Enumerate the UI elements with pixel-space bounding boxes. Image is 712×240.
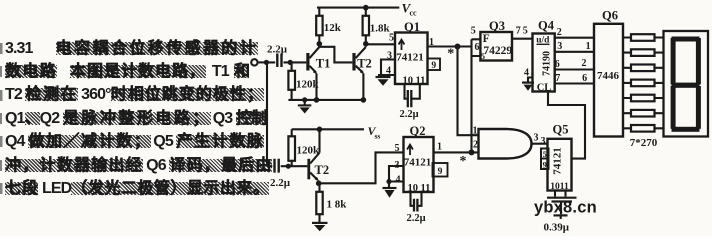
resistor 1.8k (lower) — [316, 183, 322, 222]
svg-text:74121: 74121 — [552, 147, 564, 175]
wire T2 collector to Q1 pin 5 — [366, 44, 395, 47]
ground (lower 1.8k) — [312, 223, 328, 231]
label CL (Q4) — [537, 83, 552, 94]
label u/d (Q4) — [536, 35, 550, 45]
svg-text:2.2μ: 2.2μ — [399, 109, 418, 120]
svg-text:Q4: Q4 — [538, 19, 555, 33]
pin label 3 (AND out) — [534, 133, 539, 144]
svg-text:1.8k: 1.8k — [370, 23, 391, 35]
svg-text:ybx8.cn: ybx8.cn — [534, 199, 597, 217]
svg-text:7*270: 7*270 — [630, 137, 658, 149]
label 7446 — [597, 70, 620, 82]
seven-segment digit 8 — [671, 37, 701, 132]
pin boxes (Q5 left) — [541, 149, 549, 170]
wire Q1 output — [428, 45, 458, 47]
wire Q4 CL to Q5 output — [548, 92, 585, 159]
capacitor 0.39u (Q5 timing) — [547, 191, 577, 220]
transistor T2 (top) — [352, 47, 365, 100]
svg-text:5: 5 — [395, 143, 400, 154]
label 74190 (Q4, rotated) — [542, 51, 553, 76]
svg-text:CL: CL — [537, 83, 552, 94]
wire Q3 lower pin down to AND input 2 — [470, 56, 472, 152]
node: AND input 2 junction — [469, 149, 475, 155]
svg-text:7: 7 — [555, 73, 560, 84]
resistor network 7x270 — [623, 34, 664, 131]
wire Q2 output to AND input 2 — [434, 151, 479, 153]
pin label 1 (Q6 in) — [586, 41, 591, 52]
wire Q3 output to Q4 — [512, 38, 533, 40]
svg-text:74121: 74121 — [404, 157, 432, 169]
svg-text:74229: 74229 — [483, 45, 512, 57]
capacitor 2.2u (Q2 timing) — [411, 192, 422, 212]
pin label 1 (Q2 output) — [437, 142, 442, 153]
pin labels 10 11 (Q2) — [408, 183, 431, 194]
wire AND output to Q5 — [532, 143, 548, 145]
Q2 trigger symbol — [407, 145, 413, 155]
svg-text:0.39μ: 0.39μ — [544, 222, 570, 234]
one-shot Q2 74121 box — [404, 137, 434, 192]
resistor 120k (top) — [288, 62, 295, 100]
svg-text:12k: 12k — [324, 22, 342, 34]
svg-text:3: 3 — [541, 136, 546, 147]
pin label 4 (Q4) — [524, 68, 529, 79]
svg-text:T1: T1 — [316, 57, 331, 71]
svg-text:T2: T2 — [357, 57, 372, 71]
pin label 3 (Q1) — [387, 50, 392, 61]
label Vss — [368, 124, 381, 141]
svg-text:2.2μ: 2.2μ — [267, 44, 288, 56]
label Q3 — [489, 19, 505, 33]
svg-text:9: 9 — [438, 167, 443, 177]
svg-text:1: 1 — [586, 41, 591, 52]
Q1 trigger symbol — [399, 40, 405, 50]
label 120k (lower) — [297, 145, 321, 157]
svg-text:74190: 74190 — [542, 51, 553, 76]
capacitor 2.2u (Q1 timing) — [405, 84, 420, 107]
svg-text:ss: ss — [375, 132, 381, 141]
caption text block (Chinese) — [5, 41, 258, 57]
pin label 3 (Q4 out) — [557, 41, 562, 52]
node: emitter rail junctions — [302, 97, 366, 103]
label Q2 — [410, 124, 426, 138]
svg-text:2.2μ: 2.2μ — [406, 213, 425, 224]
svg-text:6: 6 — [475, 42, 480, 53]
label 7*270 — [630, 137, 658, 149]
svg-text:F: F — [483, 33, 490, 45]
label 120k — [296, 79, 320, 91]
label T1 — [316, 57, 331, 71]
pin label 7 (Q3 out) — [516, 26, 521, 37]
label 2.2u (lower) — [270, 177, 291, 189]
label 2.2u (Q2) — [406, 213, 425, 224]
wire Q1 output to Q3 pins (jog) — [458, 39, 481, 56]
wire base node to T1 — [290, 61, 306, 63]
label 2.2u — [267, 44, 288, 56]
Vcc top rail — [317, 7, 399, 9]
svg-text:2: 2 — [582, 58, 587, 69]
svg-text:T2: T2 — [315, 163, 330, 177]
svg-text:2: 2 — [473, 140, 478, 151]
wire Q4 output bus to Q6 — [555, 38, 594, 84]
label T2 — [357, 57, 372, 71]
label Q4 — [538, 19, 555, 33]
svg-text:Q5: Q5 — [553, 123, 569, 137]
wire: feed to lower channel — [266, 62, 268, 166]
pin label 4 (Q1) — [386, 65, 391, 76]
svg-text:1 8k: 1 8k — [327, 199, 348, 211]
svg-text:3: 3 — [534, 133, 539, 144]
node: input junction — [264, 60, 269, 65]
svg-text:2.2μ: 2.2μ — [270, 177, 291, 189]
pin label 2 (Q4 out) — [557, 27, 562, 38]
emitter rail (top channel) — [288, 99, 365, 101]
asterisk mark near AND input 2 — [460, 154, 467, 169]
label 74121 (Q5, rotated) — [552, 147, 564, 175]
flip-flop Q3 74229 box — [480, 32, 512, 61]
svg-text:7: 7 — [516, 26, 521, 37]
svg-text:3: 3 — [557, 41, 562, 52]
label S pin (Q3) — [481, 51, 485, 61]
svg-text:5: 5 — [389, 33, 394, 44]
label 0.39u — [544, 222, 570, 234]
svg-text:74121: 74121 — [396, 52, 424, 64]
svg-text:5: 5 — [523, 26, 528, 37]
transistor T1 — [306, 47, 319, 100]
watermark ybx8.cn — [534, 199, 597, 217]
asterisk mark near Q1 output — [447, 47, 454, 62]
node: lower T2 emitter junction — [316, 181, 322, 187]
seven-segment display box — [664, 31, 709, 137]
pin label 2 (Q6 in) — [582, 58, 587, 69]
pin label 6 (Q6 in) — [582, 73, 587, 84]
pin label 5 (Q2) — [395, 143, 400, 154]
pin label 3 (Q5 in) — [541, 136, 546, 147]
pin label 6 (Q3) — [475, 42, 480, 53]
label Q6 — [602, 9, 618, 23]
resistor 1.8k — [363, 8, 369, 44]
pin label 4 (Q2) — [396, 175, 401, 186]
pin label 3 (Q2) — [395, 160, 400, 171]
label T2 (lower) — [315, 163, 330, 177]
page-edge artifacts — [0, 43, 3, 194]
node: T1 collector — [317, 41, 323, 47]
label 74229 (Q3) — [483, 45, 512, 57]
wire base node to lower T2 — [288, 165, 307, 167]
svg-text:7446: 7446 — [597, 70, 620, 82]
svg-text:Q6: Q6 — [602, 9, 618, 23]
svg-text:*: * — [447, 47, 454, 62]
resistor 120k (lower) — [288, 129, 295, 166]
node: rail junction at 1.8k — [363, 5, 369, 11]
node: lower rail junction — [317, 127, 323, 133]
svg-text:*: * — [460, 154, 467, 169]
op-amp/one-shot IC Q1 74121 box — [395, 33, 428, 85]
wire T1 collector to 12k and coupling to T2 base — [319, 43, 352, 62]
label 1.8k — [370, 23, 391, 35]
wire Q4 pin 4 to ground — [528, 78, 533, 83]
svg-text:1011: 1011 — [550, 182, 569, 192]
decoder Q6 7446 box — [594, 24, 623, 137]
svg-text:Q2: Q2 — [410, 124, 426, 138]
svg-text:Q3: Q3 — [489, 19, 505, 33]
svg-text:Q1: Q1 — [404, 20, 420, 34]
svg-text:1: 1 — [473, 126, 478, 137]
ground (Q2 pins 3,4) — [383, 182, 397, 198]
pin labels 10 11 (Q5) — [550, 182, 569, 192]
node: T1 base node — [288, 60, 293, 65]
label 2.2u (Q1) — [399, 109, 418, 120]
pin label 7 (Q4 out) — [555, 73, 560, 84]
svg-text:1: 1 — [437, 142, 442, 153]
label F (Q3) — [483, 33, 490, 45]
pin label 6 (Q4 out) — [555, 59, 560, 70]
capacitor 2.2u (lower input) — [267, 159, 288, 173]
label 12k — [324, 22, 342, 34]
node: T2 collector — [363, 41, 369, 47]
label 74121 (Q1) — [396, 52, 424, 64]
svg-text:6: 6 — [555, 59, 560, 70]
pin label 2 (AND in) — [473, 140, 478, 151]
pin label 5 (Q1) — [389, 33, 394, 44]
ground (top channel) — [298, 100, 312, 114]
pin label 5 (Q4 in) — [523, 26, 528, 37]
svg-text:10: 10 — [408, 183, 419, 194]
Vcc label — [402, 1, 418, 18]
pin labels 10 11 (Q1) — [403, 76, 426, 87]
svg-text:6: 6 — [582, 73, 587, 84]
svg-text:2: 2 — [557, 27, 562, 38]
pin label 5 (Q3) — [471, 25, 476, 36]
transistor T2 (lower) — [307, 129, 319, 183]
label Q1 — [404, 20, 420, 34]
svg-text:5: 5 — [543, 149, 547, 159]
label 74121 (Q2) — [404, 157, 432, 169]
svg-text:cc: cc — [410, 9, 418, 18]
label 1.8k (lower) — [327, 199, 348, 211]
svg-text:9: 9 — [543, 160, 547, 170]
ground (Q4 pin 4) — [522, 83, 534, 91]
wire Q1 output down to AND input 1 — [458, 47, 479, 136]
wire Q2 pins 3,4 bracket — [389, 166, 404, 182]
pin label 1 (AND in) — [473, 126, 478, 137]
wire input to junction — [258, 61, 267, 63]
svg-text:4: 4 — [396, 175, 401, 186]
one-shot Q5 74121 box — [548, 139, 572, 191]
svg-text:5: 5 — [481, 51, 485, 61]
wire Q1 pins 3,4 bracket — [378, 60, 395, 76]
wire lower T2 emitter to Q2 pin 5 — [319, 152, 404, 183]
node: T2 lower base node — [286, 164, 291, 169]
Vss rail (lower) — [292, 128, 364, 130]
ground (Q1 pins 3,4) — [376, 77, 391, 86]
pin label 1 (Q1 output) — [429, 37, 434, 48]
resistor 12k — [316, 8, 322, 43]
node: Q2 pin4 junction — [386, 179, 391, 184]
pin 9 box (Q1) — [428, 59, 441, 71]
node: Q1 output junction — [455, 44, 461, 50]
svg-text:9: 9 — [431, 61, 436, 71]
input terminal — [251, 59, 257, 65]
pin 9 box (Q2) — [433, 163, 448, 177]
label Q5 — [553, 123, 569, 137]
AND gate — [479, 129, 532, 159]
svg-text:5: 5 — [471, 25, 476, 36]
counter Q4 74190 box — [533, 34, 555, 92]
capacitor 2.2u (top input) — [266, 54, 290, 68]
